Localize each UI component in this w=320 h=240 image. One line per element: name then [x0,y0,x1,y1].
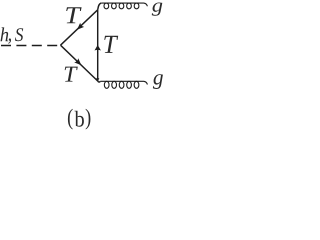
label h [1,27,9,41]
caption (b): left parenthesis [68,109,73,130]
arrowhead on top edge (pointing to left vertex) [77,23,84,30]
gluon g (bottom): coil line [100,81,147,88]
label T (middle) [104,36,118,53]
gluon g (bottom): connector from bottom vertex [98,81,101,82]
label S [15,28,23,41]
gluon g (top): coil line [101,3,147,9]
caption (b): letter b [75,111,84,127]
gluon g (top): connector from top vertex [98,3,102,10]
caption (b): right parenthesis [86,109,91,130]
fermion line T: top edge of triangle loop [61,10,98,45]
scalar propagator h,S (dashed line) [1,45,61,47]
arrowhead on bottom edge (pointing to bottom vertex) [74,58,81,65]
label g (bottom) [153,74,163,89]
label T (top) [66,7,81,23]
arrowhead on vertical edge (pointing up) [95,45,101,51]
fermion line T: right vertical edge of triangle loop [97,10,99,81]
label T (bottom) [65,67,78,82]
label g (top) [152,2,162,15]
fermion line T: bottom edge of triangle loop [61,45,98,81]
label comma [8,38,11,43]
junction flare at bottom vertex [96,78,99,81]
